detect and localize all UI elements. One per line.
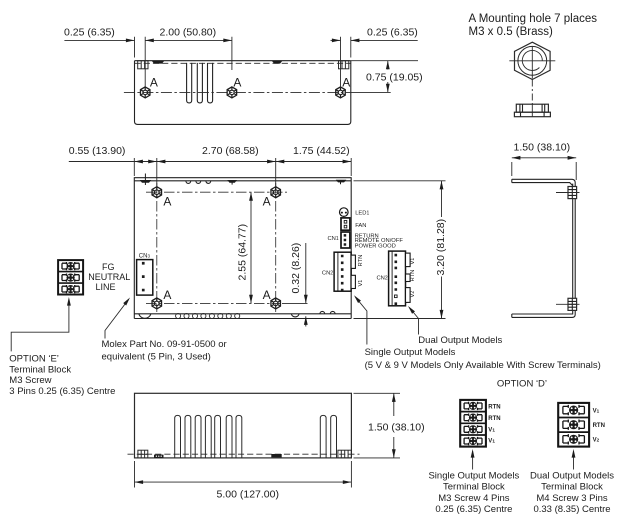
svg-text:3 Pins 0.25 (6.35) Centre: 3 Pins 0.25 (6.35) Centre: [9, 386, 115, 397]
dim extension lines (main view top): [134, 158, 351, 187]
svg-text:OPTION ‘E’: OPTION ‘E’: [9, 353, 59, 364]
main view: mounting nut TL: [152, 187, 162, 198]
top view: dashed fold line: [135, 62, 351, 64]
nut detail: base side view upper: [516, 104, 548, 112]
bottom view: dashed base line: [128, 453, 360, 455]
svg-text:0.75 (19.05): 0.75 (19.05): [366, 72, 423, 84]
dim 0.75: dimension line: [387, 61, 389, 93]
svg-text:FAN: FAN: [355, 223, 366, 229]
svg-text:0.33 (8.35) Centre: 0.33 (8.35) Centre: [533, 504, 610, 515]
top view: output terminal block (right, top view): [339, 61, 349, 69]
svg-text:Dual Output Models: Dual Output Models: [418, 335, 502, 346]
svg-text:Terminal Block: Terminal Block: [443, 482, 505, 493]
leader option E: [11, 300, 69, 352]
dim 1.75: dimension line: [276, 161, 352, 163]
svg-text:1.50 (38.10): 1.50 (38.10): [514, 142, 571, 154]
svg-text:V1: V1: [410, 258, 416, 265]
nut detail: outer circle: [518, 46, 547, 75]
svg-text:5.00 (127.00): 5.00 (127.00): [217, 489, 279, 501]
leader dual output: [409, 308, 418, 335]
nut detail: center cross: [509, 46, 555, 79]
main view: hole pattern dash-dot rectangle: [146, 183, 287, 312]
svg-text:RTN: RTN: [593, 423, 605, 429]
svg-text:V2: V2: [410, 291, 416, 298]
svg-text:0.25 (6.35): 0.25 (6.35): [367, 27, 418, 39]
dim 5.00: extension lines: [135, 461, 352, 488]
svg-text:A: A: [163, 195, 171, 209]
bottom view: input terminal block: [138, 450, 148, 458]
svg-text:0.55 (13.90): 0.55 (13.90): [69, 145, 126, 157]
svg-text:0.25 (6.35): 0.25 (6.35): [64, 27, 115, 39]
dim 2.70: dimension line: [157, 161, 276, 163]
CN2 single tabs: [351, 255, 355, 268]
dim 0.25 left: dimension line: [64, 39, 134, 41]
top view: weld mark left: [152, 61, 164, 64]
svg-text:Molex Part No. 09-91-0500 or: Molex Part No. 09-91-0500 or: [102, 339, 227, 350]
dim 0.32: reference line: [282, 302, 308, 304]
nut detail: thread circle: [522, 50, 542, 70]
dim 0.25 right: dimension line: [331, 39, 341, 41]
top view: chassis outline: [135, 61, 351, 125]
svg-text:0.25 (6.35) Centre: 0.25 (6.35) Centre: [435, 504, 512, 515]
leader option D single: [472, 451, 474, 470]
svg-text:2.70 (68.58): 2.70 (68.58): [202, 145, 259, 157]
main view: vent slot ends: [186, 181, 211, 183]
dim 0.55: dimension line: [69, 161, 157, 163]
svg-text:CN2: CN2: [377, 276, 388, 282]
svg-text:RTN: RTN: [488, 404, 500, 410]
svg-text:RTN: RTN: [410, 270, 416, 282]
svg-text:V1: V1: [488, 439, 495, 445]
dim 1.50 side: extension lines: [512, 162, 576, 180]
main view: top fold lines: [134, 178, 351, 181]
leader option D dual: [573, 451, 575, 470]
top view: mounting nut A3: [336, 87, 346, 98]
connector CN2 dual output: [389, 251, 406, 306]
main view: bottom fold lines: [134, 314, 351, 319]
top view: vent slot 2: [197, 63, 202, 103]
CN2 dual tabs: [406, 253, 411, 267]
svg-text:FG: FG: [102, 262, 115, 272]
leader molex: [105, 300, 129, 339]
main view: bottom edge arcs: [139, 311, 335, 318]
svg-text:0.32 (8.26): 0.32 (8.26): [290, 243, 302, 294]
CN2 dual pins: [395, 254, 398, 305]
svg-text:1.50 (38.10): 1.50 (38.10): [368, 421, 425, 433]
top view: centerline through holes: [124, 91, 352, 93]
main view: bottom vent holes: [176, 313, 240, 318]
svg-text:A: A: [233, 76, 241, 90]
dim 2.00: dimension line: [145, 39, 232, 41]
dim 3.20: extension lines: [354, 181, 446, 319]
side view: standoff top: [556, 187, 580, 199]
main view: weld mark right: [227, 180, 237, 183]
svg-text:M3 Screw: M3 Screw: [9, 375, 51, 386]
top view: weld mark right: [272, 61, 282, 64]
bottom view: heatsink fins group 1: [175, 415, 242, 458]
option D single output terminal block: [460, 400, 486, 447]
svg-text:V1: V1: [488, 427, 495, 433]
svg-text:2.55 (64.77): 2.55 (64.77): [237, 224, 249, 281]
CN2 single pins: [341, 255, 344, 292]
main view: weld mark left: [140, 180, 151, 183]
top view: vent slot 1: [187, 63, 192, 103]
svg-text:LINE: LINE: [96, 282, 116, 292]
svg-text:Single Output Models: Single Output Models: [428, 471, 519, 482]
svg-text:A: A: [150, 76, 158, 90]
svg-text:V1: V1: [593, 408, 600, 414]
svg-text:3.20 (81.28): 3.20 (81.28): [435, 219, 447, 276]
bottom view: chassis outline: [135, 393, 352, 458]
connector CN2 single output: [334, 252, 351, 291]
svg-text:Terminal Block: Terminal Block: [541, 482, 603, 493]
main view: weld mark far right: [336, 180, 347, 183]
leader single output: [355, 297, 367, 345]
FAN connector: [341, 218, 350, 230]
dim 1.50 bottom: dimension line: [393, 393, 395, 458]
dim extension lines (top view): [135, 37, 351, 87]
svg-text:V2: V2: [593, 437, 600, 443]
svg-text:Single Output Models: Single Output Models: [365, 347, 456, 358]
svg-text:RTN: RTN: [358, 255, 364, 267]
nut detail: hexagon: [515, 42, 551, 79]
dim 5.00: dimension line: [135, 481, 352, 483]
bottom view: output terminal block: [338, 450, 352, 458]
option E terminal block: [58, 260, 83, 294]
svg-text:V1: V1: [358, 280, 364, 287]
LED1 symbol: [340, 208, 349, 217]
top view: mounting nut A2: [227, 87, 237, 98]
bottom view: heatsink fins group 2: [320, 415, 336, 458]
svg-text:A: A: [263, 195, 271, 209]
top view: input terminal block (left, top view): [138, 61, 148, 69]
svg-text:1.75 (44.52): 1.75 (44.52): [293, 145, 350, 157]
connector CN1: [341, 232, 350, 248]
nut detail: center axis dash-dot: [531, 80, 533, 105]
svg-text:M3 x 0.5 (Brass): M3 x 0.5 (Brass): [469, 26, 554, 38]
side view: channel profile: [512, 179, 575, 317]
svg-text:A Mounting hole 7 places: A Mounting hole 7 places: [469, 13, 598, 25]
svg-text:equivalent (5 Pin, 3 Used): equivalent (5 Pin, 3 Used): [102, 352, 211, 363]
svg-text:A: A: [263, 288, 271, 302]
side view: standoff bottom: [556, 298, 580, 310]
svg-text:(5 V & 9 V Models Only Availab: (5 V & 9 V Models Only Available With Sc…: [365, 360, 601, 371]
connector CN3 body: [137, 260, 153, 296]
svg-text:A: A: [342, 76, 350, 90]
dim 3.20: dimension line: [441, 181, 443, 319]
svg-text:M3 Screw 4 Pins: M3 Screw 4 Pins: [438, 493, 510, 504]
svg-text:CN3: CN3: [139, 254, 151, 260]
svg-text:Dual Output Models: Dual Output Models: [530, 471, 614, 482]
top view: vent slot 3: [208, 63, 213, 103]
svg-text:A: A: [163, 288, 171, 302]
dim 0.75: reference lines: [351, 61, 418, 93]
main view: mounting nut TR: [271, 187, 281, 198]
option D dual output terminal block: [558, 403, 589, 447]
bottom view: center mark: [271, 454, 281, 457]
svg-text:POWER GOOD: POWER GOOD: [355, 244, 396, 250]
dim 1.50 side: dimension line: [512, 157, 576, 159]
svg-text:Terminal Block: Terminal Block: [9, 364, 71, 375]
svg-text:LED1: LED1: [355, 211, 369, 217]
svg-text:2.00 (50.80): 2.00 (50.80): [160, 27, 217, 39]
svg-text:M4 Screw 3 Pins: M4 Screw 3 Pins: [536, 493, 608, 504]
main view: mounting nut BR: [271, 298, 281, 309]
connector CN3 pins: [142, 262, 145, 292]
main view: chassis outline: [134, 177, 351, 318]
svg-text:OPTION ‘D’: OPTION ‘D’: [497, 379, 547, 390]
bottom view: AC inlet mark: [154, 455, 164, 458]
dim 2.55: dimension line: [250, 192, 252, 303]
dim 1.50 bottom: extension lines: [354, 393, 401, 458]
nut detail: base side view lower: [514, 112, 550, 117]
dim 0.75: text: [365, 70, 426, 83]
main view: mounting nut BL: [152, 298, 162, 309]
svg-text:CN2: CN2: [322, 271, 333, 277]
dim 0.32: dimension line: [305, 243, 307, 327]
svg-text:RTN: RTN: [488, 416, 500, 422]
top view: mounting nut A1: [140, 87, 150, 98]
svg-text:CN1: CN1: [328, 236, 339, 242]
svg-text:NEUTRAL: NEUTRAL: [88, 272, 130, 282]
